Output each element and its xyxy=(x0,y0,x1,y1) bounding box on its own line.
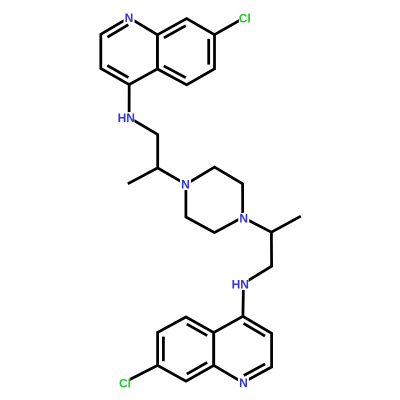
double bond N1=C2 inner line xyxy=(107,25,128,38)
double bond C4aq=C5q inner line xyxy=(187,324,207,336)
chain bonds Np4-C13b-C12b-N11b-C4q xyxy=(243,217,272,316)
atom label N11 (top NH) xyxy=(118,112,135,124)
bottom quinoline benzo ring (C4aq,C5q,C6q,C7q,C8q,C8aq) xyxy=(158,317,214,381)
double bond C8q=C8aq inner line xyxy=(187,362,207,374)
atom label N1q (bottom quinoline N) xyxy=(238,378,249,389)
bond C7q-Cl2 xyxy=(125,365,158,382)
bottom quinoline pyridine ring (C4q,C3q,C2q,N1q,C8aq,C4aq) xyxy=(214,316,272,382)
atom label Cl2 (bottom chlorine) xyxy=(119,377,130,388)
double bond C8a=C8 inner line xyxy=(164,26,186,38)
double bond C2q=N1q inner line xyxy=(244,364,265,376)
svg-text:HN: HN xyxy=(118,111,135,125)
double bond C7=C6 inner line xyxy=(207,39,210,65)
chain bonds C4-N11-C12-C13-Np1 xyxy=(129,85,186,185)
svg-text:N: N xyxy=(239,376,248,390)
svg-text:Cl: Cl xyxy=(119,376,131,390)
atom label Np4 (piperazine N4) xyxy=(238,213,249,224)
svg-text:N: N xyxy=(125,11,134,25)
atom label Np1 (piperazine N1) xyxy=(180,179,191,190)
bond C7-Cl1 xyxy=(215,18,245,35)
double bond C3=C4 inner line xyxy=(107,65,128,77)
bond C13-C14 methyl xyxy=(128,168,158,184)
top quinoline pyridine ring (N1,C2,C3,C4,C4a,C8a) xyxy=(101,18,158,85)
atom label Cl1 (top chlorine) xyxy=(239,13,251,25)
svg-text:N: N xyxy=(181,178,190,192)
double bond C4a=C5 inner line xyxy=(164,66,186,78)
atom label N1 (top quinoline N) xyxy=(124,13,135,24)
double bond C4q=C3q inner line xyxy=(244,323,265,336)
atom label N11b (bottom NH) xyxy=(232,279,249,291)
svg-text:HN: HN xyxy=(232,277,249,291)
bond C13b-C14b methyl xyxy=(271,216,300,232)
svg-text:N: N xyxy=(239,211,248,225)
top quinoline benzo ring (C8a,C8,C7,C6,C5,C4a) xyxy=(157,19,214,85)
svg-text:Cl: Cl xyxy=(239,12,251,26)
double bond C6q=C7q inner line xyxy=(162,337,165,362)
piperazine ring (Np1,Cp2,Cp3,Np4,Cp5,Cp6) xyxy=(186,167,243,233)
